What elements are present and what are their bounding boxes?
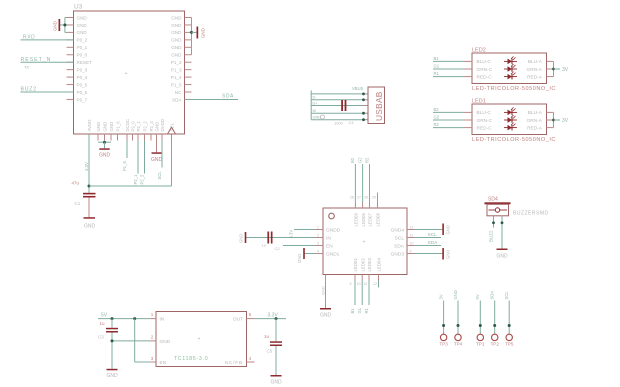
svg-text:GND: GND: [171, 45, 182, 50]
svg-text:GND: GND: [155, 122, 160, 132]
svg-text:12: 12: [373, 282, 377, 286]
svg-text:3.3V: 3.3V: [84, 162, 89, 171]
svg-text:GND: GND: [446, 250, 451, 259]
svg-text:47u: 47u: [72, 180, 80, 185]
svg-text:P0_0: P0_0: [77, 53, 88, 58]
svg-text:R2: R2: [364, 157, 369, 163]
svg-text:P2_2: P2_2: [143, 121, 148, 132]
svg-text:B2: B2: [350, 157, 355, 163]
svg-text:GND3: GND3: [391, 251, 405, 257]
svg-text:LED-TRICOLOR-5050NO_IC: LED-TRICOLOR-5050NO_IC: [472, 137, 556, 143]
svg-text:GND: GND: [106, 373, 118, 379]
svg-text:28: 28: [350, 196, 354, 200]
svg-text:GND: GND: [496, 254, 508, 260]
svg-text:P0_3: P0_3: [77, 67, 88, 72]
svg-text:SDA: SDA: [222, 94, 234, 100]
svg-text:C1: C1: [75, 201, 81, 206]
svg-text:RED-C: RED-C: [477, 125, 493, 131]
svg-text:TP4: TP4: [454, 341, 463, 346]
svg-text:GND: GND: [313, 116, 322, 120]
svg-text:GND: GND: [171, 53, 182, 58]
svg-text:G1: G1: [434, 64, 440, 69]
svg-text:P2_0: P2_0: [131, 121, 136, 132]
svg-text:BLU-C: BLU-C: [477, 110, 492, 116]
svg-text:GND: GND: [77, 15, 88, 20]
svg-text:GND: GND: [151, 157, 163, 163]
svg-text:BUZ2: BUZ2: [488, 230, 493, 242]
svg-text:3.3V: 3.3V: [268, 313, 279, 319]
svg-text:RED-C: RED-C: [477, 74, 493, 80]
svg-text:G2: G2: [434, 115, 440, 120]
svg-text:OUT: OUT: [233, 317, 243, 323]
svg-text:GND: GND: [297, 254, 302, 263]
svg-text:TX: TX: [24, 66, 29, 70]
svg-text:SCL: SCL: [170, 122, 175, 131]
svg-text:P1_5: P1_5: [171, 82, 182, 87]
svg-text:C3: C3: [98, 335, 104, 340]
svg-text:GND: GND: [77, 23, 88, 28]
svg-text:TP2: TP2: [491, 341, 500, 346]
svg-text:4: 4: [317, 249, 319, 253]
svg-text:GND: GND: [320, 313, 332, 319]
svg-text:26: 26: [364, 196, 368, 200]
svg-text:LED07: LED07: [368, 213, 373, 227]
svg-text:BLU-A: BLU-A: [528, 59, 543, 65]
svg-text:GRN-A: GRN-A: [527, 118, 543, 124]
svg-text:USBAB: USBAB: [374, 91, 384, 121]
svg-text:LED08: LED08: [376, 213, 381, 227]
svg-text:GRN-C: GRN-C: [477, 67, 493, 73]
svg-text:3V: 3V: [562, 118, 569, 124]
svg-text:EN: EN: [326, 243, 333, 249]
svg-text:DVDD: DVDD: [160, 119, 165, 131]
svg-text:SDA: SDA: [490, 291, 495, 300]
svg-text:P0_2: P0_2: [77, 38, 88, 43]
svg-text:G1: G1: [357, 307, 362, 313]
svg-text:27: 27: [357, 196, 361, 200]
svg-text:GRN-C: GRN-C: [477, 118, 493, 124]
svg-text:1: 1: [317, 225, 319, 229]
svg-text:R2: R2: [434, 122, 440, 127]
svg-text:BUZ2: BUZ2: [21, 86, 37, 92]
svg-text:2: 2: [317, 233, 319, 237]
svg-text:P2_1: P2_1: [133, 174, 138, 184]
svg-text:P0_1: P0_1: [77, 45, 88, 50]
svg-text:DCDC: DCDC: [125, 119, 130, 132]
svg-text:GND: GND: [171, 38, 182, 43]
svg-text:3V: 3V: [438, 294, 443, 299]
svg-text:P0_6: P0_6: [77, 90, 88, 95]
svg-text:SCL: SCL: [428, 232, 438, 238]
svg-text:P2_2: P2_2: [139, 174, 144, 184]
svg-text:GND: GND: [53, 21, 58, 31]
svg-text:3V: 3V: [562, 67, 569, 73]
svg-text:12: 12: [410, 225, 414, 229]
svg-text:5V: 5V: [475, 294, 480, 299]
svg-text:+: +: [125, 71, 128, 77]
svg-text:TP5: TP5: [505, 341, 514, 346]
svg-text:GND: GND: [99, 152, 111, 158]
svg-text:LED-TRICOLOR-5050NO_IC: LED-TRICOLOR-5050NO_IC: [472, 86, 556, 92]
svg-text:GND4: GND4: [391, 227, 405, 233]
svg-text:5V: 5V: [101, 313, 108, 319]
svg-text:G2: G2: [357, 157, 362, 163]
svg-text:GND: GND: [201, 28, 206, 38]
svg-text:LED05: LED05: [354, 213, 359, 227]
svg-text:BLU-A: BLU-A: [528, 110, 543, 116]
svg-text:1u: 1u: [264, 334, 270, 339]
svg-text:GND: GND: [320, 286, 325, 295]
svg-text:GND: GND: [171, 30, 182, 35]
svg-text:B1: B1: [350, 308, 355, 314]
svg-text:GRN-A: GRN-A: [527, 67, 543, 73]
svg-text:R1: R1: [434, 71, 440, 76]
svg-text:1u: 1u: [262, 242, 266, 247]
svg-text:SD4: SD4: [488, 197, 498, 203]
svg-text:RESET: RESET: [77, 60, 93, 65]
svg-text:GND: GND: [103, 122, 108, 132]
svg-text:3: 3: [317, 241, 319, 245]
svg-text:11: 11: [364, 282, 368, 286]
svg-text:GND: GND: [77, 30, 88, 35]
svg-text:P1_2: P1_2: [171, 60, 182, 65]
svg-text:GND: GND: [239, 234, 244, 243]
svg-text:GND: GND: [171, 15, 182, 20]
svg-text:GND: GND: [270, 380, 282, 386]
svg-text:B1: B1: [434, 56, 440, 61]
svg-text:U3: U3: [74, 4, 83, 11]
svg-text:P0_4: P0_4: [77, 75, 88, 80]
svg-text:SDA: SDA: [394, 243, 405, 249]
svg-text:GND: GND: [109, 122, 114, 132]
svg-text:NC/FB: NC/FB: [225, 360, 243, 366]
svg-text:P1_6: P1_6: [122, 161, 127, 171]
svg-text:B2: B2: [434, 107, 440, 112]
svg-text:C5: C5: [267, 349, 273, 354]
svg-text:1u: 1u: [100, 321, 106, 326]
svg-text:TP3: TP3: [439, 341, 448, 346]
svg-text:P2_1: P2_1: [136, 121, 141, 132]
svg-text:10: 10: [357, 282, 361, 286]
svg-text:C2: C2: [275, 246, 281, 251]
svg-text:GND: GND: [96, 122, 101, 132]
svg-text:D+: D+: [313, 101, 319, 105]
svg-text:GND: GND: [160, 339, 171, 345]
svg-text:BUZZERSMD: BUZZERSMD: [513, 210, 549, 216]
svg-text:SCL: SCL: [157, 171, 162, 180]
svg-text:SCL: SCL: [395, 235, 405, 241]
svg-text:C4: C4: [349, 120, 355, 125]
svg-text:10: 10: [410, 241, 414, 245]
svg-text:GND: GND: [171, 23, 182, 28]
svg-text:P0_5: P0_5: [77, 82, 88, 87]
svg-text:25: 25: [372, 196, 376, 200]
svg-text:NC: NC: [175, 90, 182, 95]
svg-text:TP1: TP1: [476, 341, 485, 346]
svg-text:+: +: [198, 337, 201, 343]
svg-text:100n: 100n: [334, 121, 343, 126]
svg-text:P2_3: P2_3: [149, 121, 154, 132]
svg-text:P1_4: P1_4: [171, 75, 182, 80]
svg-text:+: +: [363, 240, 366, 246]
svg-text:P0_7: P0_7: [77, 97, 88, 102]
svg-text:GND: GND: [84, 224, 96, 230]
svg-text:LED02: LED02: [360, 258, 365, 272]
svg-text:GND: GND: [453, 290, 458, 299]
svg-text:RESET_N: RESET_N: [21, 57, 52, 63]
svg-text:IN: IN: [160, 317, 165, 323]
svg-text:11: 11: [410, 233, 414, 237]
svg-text:LED03: LED03: [367, 258, 372, 272]
svg-text:RED-A: RED-A: [527, 74, 543, 80]
svg-text:ID: ID: [313, 109, 317, 113]
svg-text:RXD: RXD: [23, 34, 35, 40]
svg-text:SCL: SCL: [504, 291, 509, 300]
svg-text:LED01: LED01: [353, 258, 358, 272]
svg-text:IN: IN: [326, 235, 331, 241]
svg-text:P1_6: P1_6: [116, 121, 121, 132]
svg-text:SDA: SDA: [428, 240, 439, 246]
svg-text:R1: R1: [364, 307, 369, 313]
svg-text:P1_3: P1_3: [171, 67, 182, 72]
svg-text:TC1185-3.0: TC1185-3.0: [174, 356, 209, 362]
svg-text:BLU-C: BLU-C: [477, 59, 492, 65]
svg-text:LED04: LED04: [377, 258, 382, 272]
svg-text:GND: GND: [446, 225, 451, 234]
svg-text:EN: EN: [160, 360, 167, 366]
svg-text:SDA: SDA: [172, 97, 182, 102]
svg-text:VBUS: VBUS: [352, 86, 364, 91]
svg-text:RED-A: RED-A: [527, 125, 543, 131]
svg-text:AVDD: AVDD: [87, 120, 92, 132]
svg-text:9: 9: [410, 249, 412, 253]
svg-text:GNDD: GNDD: [326, 227, 341, 233]
svg-text:9: 9: [350, 282, 352, 286]
svg-text:GND1: GND1: [326, 251, 340, 257]
svg-text:LED06: LED06: [361, 213, 366, 227]
